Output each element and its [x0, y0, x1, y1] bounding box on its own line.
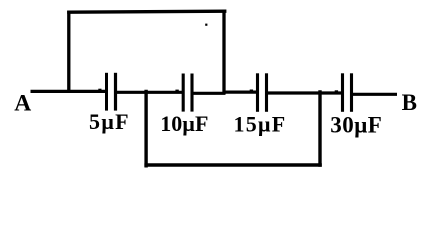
svg-text:15µF: 15µF: [234, 111, 287, 136]
bottom loop left vertical wire: [144, 90, 147, 168]
capacitor C3 plate right: [265, 73, 268, 112]
capacitor C1 plate left: [105, 73, 108, 111]
capacitor C4 plate left: [341, 73, 344, 112]
wire C4 to B: [352, 93, 398, 96]
top loop horizontal wire: [67, 11, 226, 12]
bottom loop right vertical wire: [318, 90, 321, 166]
wire C1 to C2: [116, 91, 184, 94]
top loop right vertical wire: [222, 10, 225, 94]
svg-text:B: B: [402, 90, 417, 115]
wire top-tap junction to C3: [223, 90, 258, 93]
top loop left vertical wire: [67, 11, 70, 93]
junction bump at C2: [175, 90, 178, 92]
junction bump at C4: [335, 90, 338, 92]
capacitor C3 plate left: [256, 73, 259, 112]
bottom loop horizontal wire: [144, 163, 321, 166]
svg-text:10µF: 10µF: [160, 111, 208, 136]
capacitor C1 plate right: [114, 73, 117, 111]
junction bump at C1: [98, 89, 101, 91]
capacitor C2 plate right: [190, 74, 193, 112]
capacitor C2 plate left: [182, 74, 185, 112]
wire A to C1: [31, 90, 107, 93]
svg-text:30µF: 30µF: [330, 113, 382, 138]
wire C3 to C4: [267, 91, 343, 94]
svg-text:5µF: 5µF: [89, 109, 130, 134]
wire C2 to top-tap junction: [192, 92, 226, 95]
svg-text:A: A: [14, 90, 31, 116]
capacitor C4 plate right: [350, 73, 353, 112]
stray dot: [205, 24, 207, 26]
junction bump at C3: [250, 90, 253, 92]
